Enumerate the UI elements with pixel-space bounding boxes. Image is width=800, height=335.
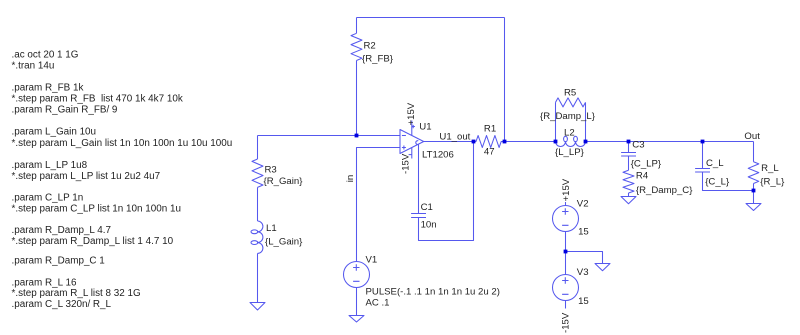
voltage source V1	[344, 262, 370, 288]
svg-text:V3: V3	[577, 267, 589, 278]
svg-text:C_L: C_L	[706, 158, 724, 169]
svg-text:*.step param C_LP list 1n 10n: *.step param C_LP list 1n 10n 100n 1u	[12, 204, 181, 215]
wire R2 top stub	[356, 18, 358, 34]
wire plus input	[357, 148, 401, 262]
wire left column to R3	[257, 136, 259, 160]
svg-text:.param C_L 320n/ R_L: .param C_L 320n/ R_L	[12, 299, 112, 310]
ground G1	[250, 303, 265, 311]
svg-text:U1_out: U1_out	[439, 132, 470, 143]
inductor L2	[556, 142, 586, 147]
svg-text:{R_L}: {R_L}	[760, 177, 785, 188]
node minus input junction	[355, 134, 359, 138]
svg-text:{C_LP}: {C_LP}	[631, 159, 662, 170]
resistor R1	[474, 136, 505, 148]
inductor L1	[258, 221, 263, 253]
svg-text:.param L_LP 1u8: .param L_LP 1u8	[12, 160, 88, 171]
svg-text:*.step param L_Gain list 1n 10: *.step param L_Gain list 1n 10n 100n 1u …	[12, 138, 233, 149]
wire V2 to V3	[565, 232, 567, 275]
svg-text:PULSE(-.1 .1 1n 1n 1n 1u 2u 2): PULSE(-.1 .1 1n 1n 1n 1u 2u 2)	[366, 286, 500, 297]
svg-text:.param R_L 16: .param R_L 16	[12, 277, 77, 288]
node C_L junction	[701, 140, 705, 144]
svg-text:{R_Damp_C}: {R_Damp_C}	[636, 185, 693, 196]
wire R5 right stub	[585, 102, 587, 141]
wire R2 bottom to minus node	[356, 61, 358, 136]
node LP right junction	[584, 140, 588, 144]
svg-text:.param R_FB 1k: .param R_FB 1k	[12, 82, 84, 93]
svg-text:Out: Out	[744, 131, 760, 142]
ground G5	[746, 204, 761, 211]
wire R4 to ground	[628, 193, 630, 197]
svg-text:10n: 10n	[421, 220, 437, 231]
capacitor C_L	[695, 169, 710, 173]
resistor R_L	[748, 162, 759, 184]
svg-text:+15V: +15V	[561, 178, 572, 201]
svg-text:{C_L}: {C_L}	[705, 177, 730, 188]
resistor R3	[252, 159, 263, 187]
svg-text:*.step param L_LP list 1u 2u2: *.step param L_LP list 1u 2u2 4u7	[12, 171, 161, 182]
svg-text:U1: U1	[419, 122, 431, 133]
svg-text:R3: R3	[265, 164, 277, 175]
node feedback junction	[503, 140, 507, 144]
svg-text:R2: R2	[364, 41, 376, 52]
wire comp pin to C1	[418, 144, 420, 213]
wire R_L to bottom node	[753, 184, 755, 191]
svg-text:*.step param R_Damp_L list 1 4: *.step param R_Damp_L list 1 4.7 10	[12, 236, 174, 247]
voltage source V2	[553, 206, 579, 232]
wire Out corner down	[753, 142, 755, 162]
svg-text:C3: C3	[632, 139, 644, 150]
svg-text:L1: L1	[266, 223, 277, 234]
op-amp comp pin hook	[416, 141, 419, 145]
voltage source V3	[553, 275, 579, 301]
node load bottom junction	[752, 189, 756, 193]
svg-text:R4: R4	[636, 171, 649, 182]
svg-text:.param R_Damp_L 4.7: .param R_Damp_L 4.7	[12, 225, 112, 236]
svg-text:15: 15	[578, 296, 589, 307]
wire feedback vertical	[504, 18, 506, 142]
ground G3	[595, 264, 610, 271]
op-amp U1	[400, 130, 424, 154]
svg-text:+15V: +15V	[406, 102, 417, 125]
ground G4	[621, 197, 636, 204]
svg-text:V1: V1	[366, 255, 378, 266]
svg-text:*.tran 14u: *.tran 14u	[12, 60, 55, 71]
svg-text:in: in	[345, 175, 356, 182]
wire C3 node to CL node	[629, 141, 703, 143]
svg-text:*.step param R_FB list 470 1k: *.step param R_FB list 470 1k 4k7 10k	[12, 93, 183, 104]
svg-text:V2: V2	[577, 198, 589, 209]
capacitor C3	[621, 153, 636, 157]
ground G2	[349, 316, 364, 323]
wire top feedback rail	[357, 17, 505, 19]
wire op-amp output	[424, 141, 474, 143]
svg-text:{L_LP}: {L_LP}	[555, 147, 585, 158]
capacitor C1	[411, 214, 426, 218]
svg-text:.param C_LP 1n: .param C_LP 1n	[12, 193, 84, 204]
svg-text:L2: L2	[564, 127, 575, 138]
svg-text:AC .1: AC .1	[366, 297, 390, 308]
wire R1 to LP block	[505, 141, 556, 143]
svg-text:.param R_Damp_C 1: .param R_Damp_C 1	[12, 256, 106, 267]
wire L1 to ground	[257, 253, 259, 302]
wire C3 to R4	[628, 156, 630, 170]
svg-text:-15V: -15V	[400, 153, 411, 174]
svg-text:{R_Damp_L}: {R_Damp_L}	[540, 111, 596, 122]
resistor R4	[623, 170, 634, 193]
wire C_L bottom	[703, 172, 754, 191]
wire CL top stub	[702, 142, 704, 169]
wire LP to C3 node	[586, 141, 629, 143]
wire R3 to L1	[257, 187, 259, 221]
svg-text:LT1206: LT1206	[422, 150, 454, 161]
svg-text:*.step param R_L list 8 32 1G: *.step param R_L list 8 32 1G	[12, 288, 141, 299]
resistor R5	[556, 98, 586, 107]
svg-text:47: 47	[484, 146, 495, 157]
wire mid supply to ground	[566, 252, 603, 264]
svg-text:.ac oct 20 1 1G: .ac oct 20 1 1G	[12, 49, 79, 60]
wire V1 to ground	[356, 288, 358, 316]
svg-text:C1: C1	[421, 202, 433, 213]
svg-text:-15V: -15V	[561, 312, 572, 333]
node U1_out junction	[472, 140, 476, 144]
wire CL node to Out corner	[703, 141, 754, 143]
svg-text:R5: R5	[564, 88, 576, 99]
wire V2 top stub	[565, 202, 567, 206]
wire minus input rail	[258, 135, 401, 137]
node supply mid junction	[564, 250, 568, 254]
resistor R2	[351, 33, 362, 60]
node C3 junction	[627, 140, 631, 144]
svg-text:{R_Gain}: {R_Gain}	[264, 176, 304, 187]
svg-text:R_L: R_L	[761, 163, 779, 174]
wire bottom node to ground	[753, 191, 755, 204]
svg-text:{R_FB}: {R_FB}	[362, 53, 394, 64]
wire C1 to output loop	[419, 142, 474, 241]
svg-text:.param L_Gain 10u: .param L_Gain 10u	[12, 127, 97, 138]
wire V3 bottom stub	[565, 301, 567, 309]
wire R5 left stub	[555, 102, 557, 141]
svg-text:.param R_Gain R_FB/ 9: .param R_Gain R_FB/ 9	[12, 104, 118, 115]
wire C3 top stub	[628, 142, 630, 153]
svg-text:15: 15	[578, 227, 589, 238]
svg-text:{L_Gain}: {L_Gain}	[265, 237, 303, 248]
node LP left junction	[554, 140, 558, 144]
svg-text:R1: R1	[484, 123, 496, 134]
